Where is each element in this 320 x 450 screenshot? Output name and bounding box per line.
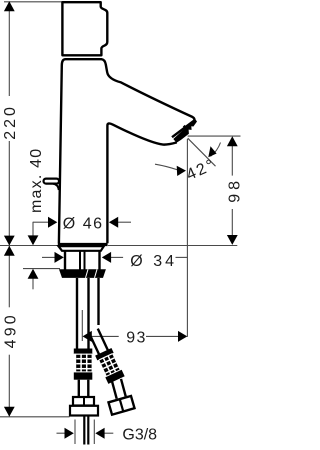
svg-text:98: 98 — [227, 177, 242, 203]
svg-text:Ø 46: Ø 46 — [63, 216, 104, 233]
svg-text:G3/8: G3/8 — [122, 427, 157, 444]
svg-text:220: 220 — [2, 104, 19, 140]
svg-text:max. 40: max. 40 — [28, 148, 45, 213]
svg-text:93: 93 — [126, 330, 147, 347]
svg-text:490: 490 — [3, 312, 20, 348]
svg-text:Ø 34: Ø 34 — [130, 253, 177, 270]
